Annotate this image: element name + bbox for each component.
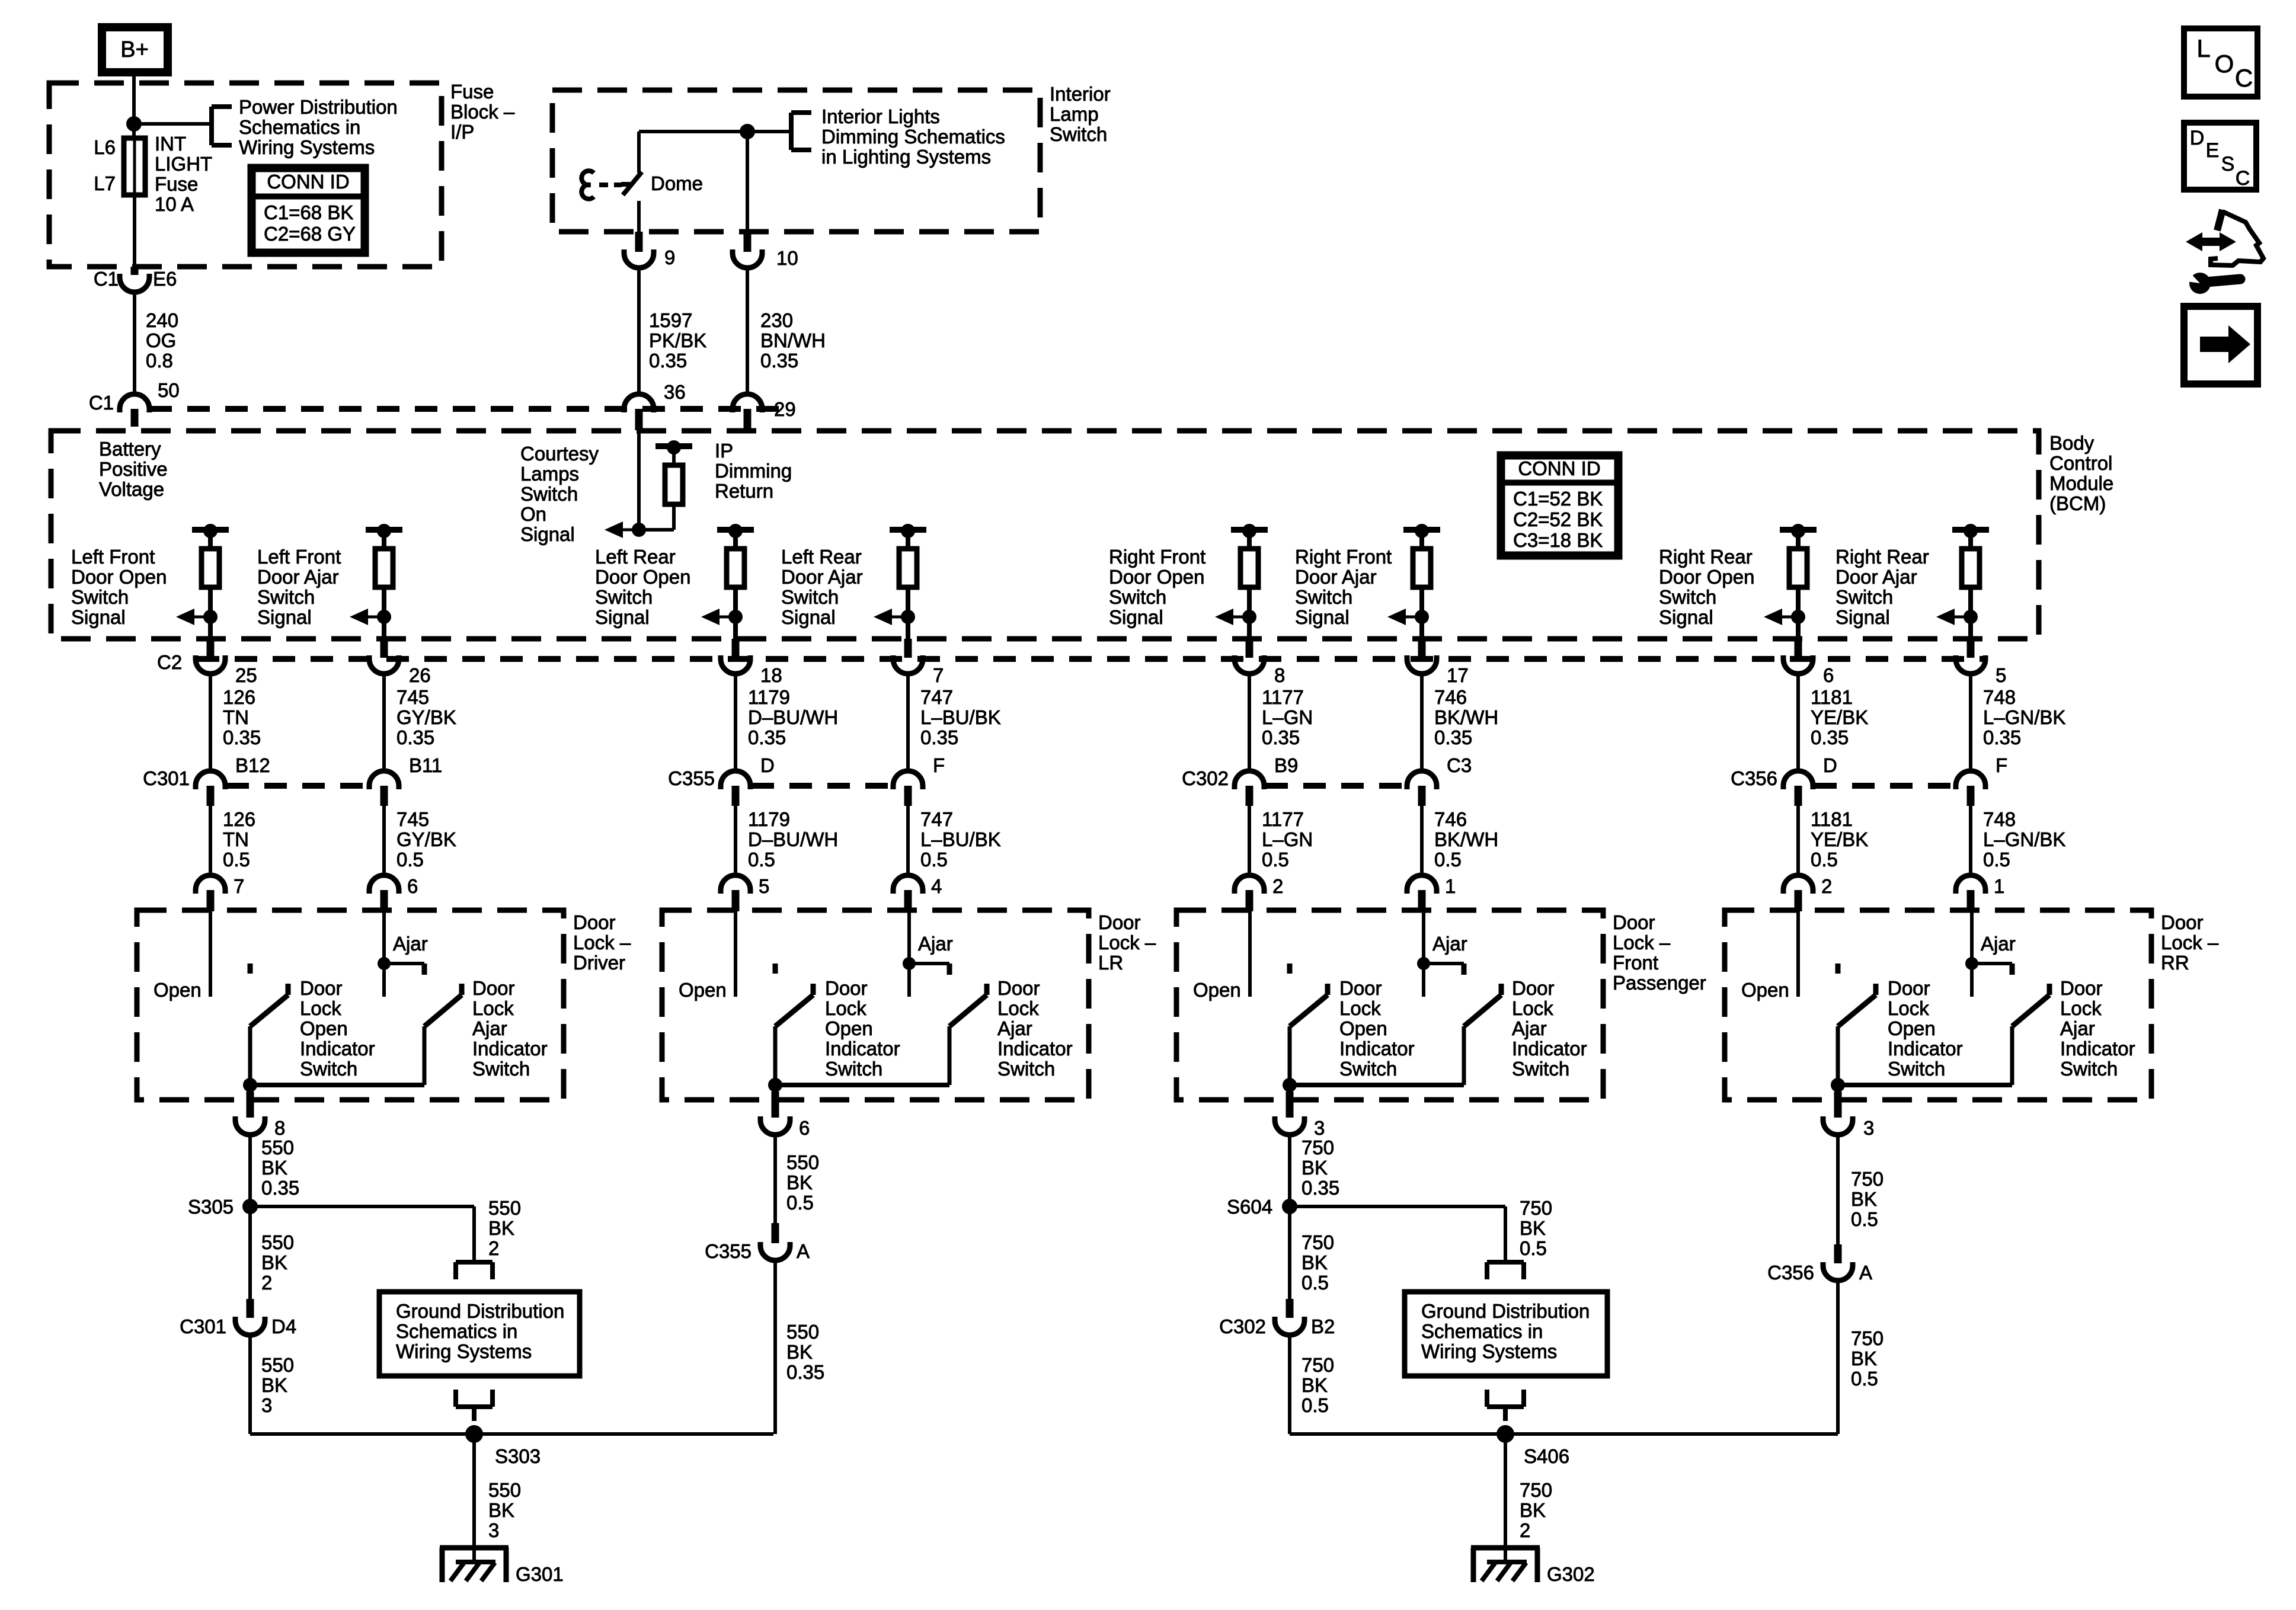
svg-text:BK: BK [786,1172,813,1193]
svg-text:745: 745 [396,686,429,708]
svg-text:Switch: Switch [300,1058,357,1080]
svg-text:746: 746 [1434,686,1467,708]
svg-text:Switch: Switch [1295,586,1352,608]
svg-text:750: 750 [1302,1137,1334,1158]
svg-text:6: 6 [799,1117,810,1139]
svg-text:L: L [2196,34,2210,62]
svg-text:Left Front: Left Front [71,546,155,568]
svg-text:750: 750 [1851,1168,1884,1190]
svg-text:Right Front: Right Front [1295,546,1392,568]
svg-text:25: 25 [235,664,257,686]
svg-text:Open: Open [825,1017,873,1039]
svg-text:Dimming Schematics: Dimming Schematics [821,126,1005,148]
svg-text:A: A [1859,1262,1872,1283]
svg-text:L–GN: L–GN [1262,706,1313,728]
svg-text:Door Ajar: Door Ajar [1295,566,1377,588]
svg-text:Switch: Switch [1512,1058,1569,1080]
svg-text:Ajar: Ajar [472,1017,507,1039]
svg-text:Open: Open [1888,1017,1936,1039]
svg-text:Ajar: Ajar [997,1017,1032,1039]
svg-text:0.5: 0.5 [748,849,775,870]
svg-text:Indicator: Indicator [997,1038,1073,1060]
svg-text:18: 18 [760,664,782,686]
svg-text:G301: G301 [516,1563,564,1585]
svg-text:C3=18 BK: C3=18 BK [1513,529,1603,551]
svg-text:D: D [760,754,775,776]
svg-text:C355: C355 [668,767,715,789]
svg-text:Lock: Lock [1512,997,1553,1019]
svg-text:Switch: Switch [520,483,578,505]
svg-text:10: 10 [776,247,798,269]
svg-text:750: 750 [1851,1327,1884,1349]
svg-text:1: 1 [1445,875,1456,897]
svg-text:Interior Lights: Interior Lights [821,105,940,127]
svg-text:Open: Open [300,1017,348,1039]
svg-text:Switch: Switch [1659,586,1716,608]
svg-text:Ajar: Ajar [1981,933,2016,955]
svg-text:Signal: Signal [1659,606,1713,628]
svg-text:748: 748 [1983,686,2016,708]
svg-text:L–GN/BK: L–GN/BK [1983,828,2065,850]
svg-text:C301: C301 [180,1315,226,1337]
svg-text:C: C [2236,167,2250,190]
svg-text:2: 2 [1272,875,1283,897]
svg-text:TN: TN [223,706,249,728]
svg-text:B11: B11 [409,754,442,776]
svg-text:Switch: Switch [1050,123,1107,145]
svg-text:Schematics in: Schematics in [1421,1320,1543,1342]
svg-text:C1: C1 [94,268,119,290]
svg-text:Lock: Lock [997,997,1039,1019]
svg-text:6: 6 [407,875,418,897]
svg-text:Passenger: Passenger [1613,972,1706,994]
svg-text:745: 745 [396,808,429,830]
svg-text:0.35: 0.35 [1983,726,2021,748]
svg-text:CONN ID: CONN ID [267,171,349,193]
svg-text:D–BU/WH: D–BU/WH [748,706,838,728]
svg-text:C2=52 BK: C2=52 BK [1513,508,1603,530]
svg-text:0.35: 0.35 [1262,726,1300,748]
svg-text:BK: BK [1851,1347,1877,1369]
svg-text:C2: C2 [157,651,182,673]
svg-text:Door Open: Door Open [71,566,167,588]
svg-text:C356: C356 [1767,1262,1814,1283]
svg-text:Block –: Block – [450,101,515,123]
svg-text:L–GN/BK: L–GN/BK [1983,706,2065,728]
svg-text:BK: BK [1302,1251,1328,1273]
svg-text:550: 550 [261,1231,294,1253]
svg-text:Switch: Switch [1339,1058,1397,1080]
svg-text:0.5: 0.5 [396,849,424,870]
svg-text:Door: Door [1098,911,1141,933]
svg-text:LIGHT: LIGHT [155,153,212,175]
svg-text:Door: Door [825,977,868,999]
svg-text:746: 746 [1434,808,1467,830]
svg-text:Open: Open [1193,979,1241,1001]
svg-text:Door Ajar: Door Ajar [1835,566,1917,588]
svg-text:Ajar: Ajar [1512,1017,1547,1039]
svg-text:Switch: Switch [1109,586,1166,608]
svg-text:Right Front: Right Front [1109,546,1205,568]
svg-text:S303: S303 [495,1445,541,1467]
svg-text:IP: IP [715,440,733,462]
svg-text:0.5: 0.5 [1434,849,1462,870]
svg-text:BK: BK [1302,1157,1328,1179]
svg-text:C1=52 BK: C1=52 BK [1513,488,1603,510]
svg-text:Left Rear: Left Rear [595,546,676,568]
svg-text:Left Front: Left Front [257,546,341,568]
svg-text:0.5: 0.5 [223,849,250,870]
svg-text:3: 3 [488,1519,499,1541]
svg-text:CONN ID: CONN ID [1518,457,1600,479]
svg-text:Switch: Switch [472,1058,530,1080]
svg-text:Battery: Battery [99,438,161,460]
svg-text:Switch: Switch [595,586,653,608]
svg-text:17: 17 [1447,664,1469,686]
svg-text:BK/WH: BK/WH [1434,828,1498,850]
svg-text:Ajar: Ajar [393,933,428,955]
svg-text:0.35: 0.35 [261,1177,299,1199]
svg-text:0.35: 0.35 [1302,1177,1339,1199]
svg-text:F: F [1996,754,2007,776]
svg-text:Door Open: Door Open [1659,566,1754,588]
svg-text:0.8: 0.8 [146,350,173,372]
svg-text:BK: BK [786,1341,813,1363]
svg-text:0.35: 0.35 [786,1361,824,1383]
svg-text:0.5: 0.5 [1983,849,2010,870]
svg-text:Fuse: Fuse [450,81,494,103]
svg-text:126: 126 [223,686,255,708]
svg-text:E6: E6 [153,268,177,290]
svg-text:BK: BK [1302,1374,1328,1396]
svg-text:Door: Door [2161,911,2204,933]
svg-text:0.5: 0.5 [786,1192,814,1214]
svg-text:Lock: Lock [472,997,514,1019]
svg-text:Control: Control [2049,452,2112,474]
svg-text:Interior: Interior [1050,83,1111,105]
svg-text:Signal: Signal [1109,606,1163,628]
svg-text:0.35: 0.35 [649,350,687,372]
svg-text:Indicator: Indicator [1512,1038,1587,1060]
svg-text:230: 230 [760,309,793,331]
svg-text:0.5: 0.5 [1520,1237,1547,1259]
svg-text:0.35: 0.35 [748,726,786,748]
svg-text:0.5: 0.5 [1811,849,1838,870]
svg-text:B+: B+ [120,37,149,62]
svg-text:Door: Door [997,977,1040,999]
svg-text:6: 6 [1823,664,1834,686]
svg-text:550: 550 [261,1137,294,1158]
svg-text:BK: BK [1520,1217,1546,1239]
svg-text:Switch: Switch [825,1058,882,1080]
svg-text:BK: BK [488,1499,514,1521]
svg-text:750: 750 [1520,1197,1552,1219]
svg-text:1597: 1597 [649,309,692,331]
svg-text:BK: BK [261,1251,287,1273]
svg-text:D–BU/WH: D–BU/WH [748,828,838,850]
svg-text:750: 750 [1302,1231,1334,1253]
svg-text:Dimming: Dimming [715,460,792,482]
svg-text:Lock: Lock [1339,997,1381,1019]
svg-text:Indicator: Indicator [825,1038,900,1060]
svg-text:Wiring Systems: Wiring Systems [396,1340,532,1362]
svg-text:750: 750 [1302,1354,1334,1376]
svg-text:L6: L6 [94,136,116,158]
svg-text:3: 3 [1863,1117,1874,1139]
svg-text:4: 4 [931,875,942,897]
svg-text:Return: Return [715,480,773,502]
svg-text:550: 550 [786,1321,819,1343]
svg-text:0.5: 0.5 [1262,849,1289,870]
svg-text:G302: G302 [1547,1563,1595,1585]
svg-text:Positive: Positive [99,458,168,480]
svg-text:Door Ajar: Door Ajar [257,566,339,588]
svg-text:Wiring Systems: Wiring Systems [1421,1340,1557,1362]
svg-text:Ajar: Ajar [918,933,953,955]
svg-text:Ajar: Ajar [2060,1017,2095,1039]
svg-text:S604: S604 [1227,1196,1272,1218]
svg-text:Signal: Signal [1835,606,1890,628]
svg-text:Door: Door [1339,977,1382,999]
svg-text:TN: TN [223,828,249,850]
svg-text:D: D [2190,127,2205,149]
svg-text:PK/BK: PK/BK [649,329,706,351]
svg-text:C: C [2235,64,2253,92]
svg-text:Open: Open [679,979,727,1001]
svg-text:Front: Front [1613,952,1658,974]
svg-text:Lock –: Lock – [1098,932,1156,953]
svg-text:LR: LR [1098,952,1123,974]
svg-text:Lock: Lock [1888,997,1929,1019]
svg-text:0.5: 0.5 [1302,1394,1329,1416]
svg-text:0.35: 0.35 [1811,726,1849,748]
svg-text:Left Rear: Left Rear [781,546,862,568]
svg-text:Indicator: Indicator [472,1038,548,1060]
svg-text:Lock: Lock [825,997,866,1019]
svg-text:1179: 1179 [748,808,790,830]
svg-text:C2=68 GY: C2=68 GY [264,223,356,245]
svg-text:A: A [797,1240,810,1262]
svg-text:0.35: 0.35 [760,350,798,372]
svg-text:B2: B2 [1311,1315,1335,1337]
svg-text:750: 750 [1520,1479,1552,1501]
svg-text:Right Rear: Right Rear [1659,546,1753,568]
svg-text:240: 240 [146,309,178,331]
svg-text:0.5: 0.5 [1851,1368,1878,1390]
svg-text:BK/WH: BK/WH [1434,706,1498,728]
svg-text:C3: C3 [1447,754,1472,776]
svg-text:2: 2 [1821,875,1832,897]
svg-text:GY/BK: GY/BK [396,828,456,850]
svg-text:C355: C355 [705,1240,752,1262]
svg-text:BK: BK [1851,1188,1877,1210]
svg-text:L–GN: L–GN [1262,828,1313,850]
svg-text:Door: Door [1613,911,1655,933]
svg-text:Open: Open [154,979,202,1001]
svg-text:550: 550 [261,1354,294,1376]
svg-text:29: 29 [774,398,796,420]
svg-text:Schematics in: Schematics in [239,116,360,138]
svg-text:E: E [2206,139,2220,162]
svg-text:3: 3 [1314,1117,1325,1139]
svg-text:2: 2 [261,1272,272,1294]
svg-text:126: 126 [223,808,255,830]
svg-text:Ajar: Ajar [1432,933,1467,955]
svg-text:OG: OG [146,329,176,351]
svg-text:BK: BK [488,1217,514,1239]
svg-text:Door: Door [472,977,515,999]
svg-text:Open: Open [1741,979,1789,1001]
svg-text:Switch: Switch [1888,1058,1945,1080]
svg-text:Lock: Lock [300,997,341,1019]
svg-text:50: 50 [158,379,180,401]
svg-text:Signal: Signal [71,606,126,628]
svg-text:Door: Door [573,911,616,933]
svg-text:550: 550 [786,1151,819,1173]
svg-text:BN/WH: BN/WH [760,329,826,351]
svg-text:5: 5 [1996,664,2006,686]
svg-text:BK: BK [1520,1499,1546,1521]
svg-text:Door: Door [300,977,343,999]
svg-text:S406: S406 [1524,1445,1569,1467]
svg-text:747: 747 [920,686,953,708]
svg-text:7: 7 [933,664,944,686]
svg-text:Fuse: Fuse [155,173,198,195]
svg-text:36: 36 [664,381,686,403]
svg-text:Ground Distribution: Ground Distribution [1421,1300,1590,1322]
svg-text:Schematics in: Schematics in [396,1320,517,1342]
svg-text:Signal: Signal [1295,606,1350,628]
svg-text:Driver: Driver [573,952,625,974]
svg-text:748: 748 [1983,808,2016,830]
svg-text:Door Open: Door Open [595,566,690,588]
svg-text:Door Open: Door Open [1109,566,1204,588]
svg-text:8: 8 [1274,664,1285,686]
svg-text:C302: C302 [1219,1315,1266,1337]
svg-text:Lock –: Lock – [573,932,631,953]
svg-text:Indicator: Indicator [2060,1038,2135,1060]
svg-text:Lock: Lock [2060,997,2102,1019]
svg-text:B12: B12 [235,754,270,776]
svg-text:YE/BK: YE/BK [1811,706,1868,728]
svg-text:Indicator: Indicator [1888,1038,1963,1060]
svg-text:2: 2 [488,1237,499,1259]
svg-text:Voltage: Voltage [99,478,164,500]
svg-text:Switch: Switch [2060,1058,2118,1080]
svg-text:26: 26 [409,664,431,686]
svg-text:YE/BK: YE/BK [1811,828,1868,850]
svg-text:Lock –: Lock – [1613,932,1671,953]
svg-text:Switch: Switch [781,586,839,608]
svg-text:L–BU/BK: L–BU/BK [920,706,1001,728]
svg-text:C1=68 BK: C1=68 BK [264,201,353,223]
svg-text:Door: Door [2060,977,2103,999]
svg-text:Dome: Dome [651,172,703,194]
svg-text:F: F [933,754,945,776]
svg-text:D: D [1823,754,1837,776]
svg-text:Lock –: Lock – [2161,932,2219,953]
svg-text:Wiring Systems: Wiring Systems [239,136,375,158]
svg-text:0.35: 0.35 [396,726,434,748]
svg-text:3: 3 [261,1394,272,1416]
svg-text:(BCM): (BCM) [2049,492,2106,514]
svg-text:1181: 1181 [1811,808,1853,830]
svg-text:C1: C1 [89,392,114,414]
svg-text:INT: INT [155,133,186,155]
svg-text:Lamps: Lamps [520,463,579,485]
svg-text:1: 1 [1994,875,2004,897]
svg-text:Door: Door [1512,977,1555,999]
svg-text:1177: 1177 [1262,686,1304,708]
svg-text:Indicator: Indicator [300,1038,375,1060]
svg-text:747: 747 [920,808,953,830]
svg-text:Ground Distribution: Ground Distribution [396,1300,564,1322]
svg-text:Signal: Signal [257,606,312,628]
svg-text:O: O [2215,50,2234,78]
svg-text:BK: BK [261,1374,287,1396]
svg-text:Signal: Signal [595,606,650,628]
svg-text:7: 7 [234,875,244,897]
svg-text:0.35: 0.35 [1434,726,1472,748]
svg-text:Switch: Switch [1835,586,1893,608]
svg-text:550: 550 [488,1197,521,1219]
svg-text:Right Rear: Right Rear [1835,546,1929,568]
svg-text:8: 8 [274,1117,285,1139]
svg-text:D4: D4 [271,1315,296,1337]
svg-text:Switch: Switch [257,586,315,608]
svg-text:I/P: I/P [450,121,474,143]
svg-text:Module: Module [2049,472,2113,494]
svg-text:5: 5 [759,875,769,897]
svg-text:L7: L7 [94,172,116,194]
svg-text:550: 550 [488,1479,521,1501]
svg-text:Door Ajar: Door Ajar [781,566,863,588]
svg-text:Switch: Switch [71,586,129,608]
svg-text:On: On [520,503,546,525]
svg-text:in Lighting Systems: in Lighting Systems [821,146,991,168]
svg-text:C356: C356 [1731,767,1777,789]
svg-text:1181: 1181 [1811,686,1853,708]
svg-text:1177: 1177 [1262,808,1304,830]
svg-text:B9: B9 [1274,754,1298,776]
svg-text:0.35: 0.35 [223,726,261,748]
svg-text:Courtesy: Courtesy [520,443,599,465]
svg-text:S: S [2221,153,2235,175]
svg-text:1179: 1179 [748,686,790,708]
svg-text:C302: C302 [1182,767,1229,789]
svg-text:10 A: 10 A [155,193,194,215]
svg-text:Indicator: Indicator [1339,1038,1415,1060]
svg-text:Signal: Signal [520,523,575,545]
svg-text:Signal: Signal [781,606,836,628]
svg-text:0.5: 0.5 [920,849,948,870]
svg-text:Open: Open [1339,1017,1387,1039]
svg-text:0.5: 0.5 [1851,1208,1878,1230]
svg-text:L–BU/BK: L–BU/BK [920,828,1001,850]
svg-text:2: 2 [1520,1519,1530,1541]
svg-text:Door: Door [1888,977,1930,999]
svg-text:BK: BK [261,1157,287,1179]
svg-text:GY/BK: GY/BK [396,706,456,728]
svg-text:0.5: 0.5 [1302,1272,1329,1294]
svg-text:Body: Body [2049,432,2094,454]
svg-text:Power Distribution: Power Distribution [239,96,398,118]
svg-text:Switch: Switch [997,1058,1055,1080]
svg-text:Lamp: Lamp [1050,103,1099,125]
svg-text:S305: S305 [188,1196,234,1218]
svg-text:RR: RR [2161,952,2189,974]
svg-text:C301: C301 [143,767,190,789]
